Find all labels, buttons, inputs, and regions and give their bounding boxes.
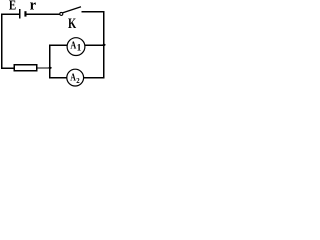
- svg-text:A: A: [70, 40, 76, 52]
- battery E: long plate (positive): [19, 9, 21, 19]
- switch K: blade (open): [63, 7, 81, 13]
- wire: mid vertical (parallel branch left bus): [49, 45, 51, 79]
- wire: A1 branch left lead: [49, 44, 67, 46]
- ammeter A2 circle: [67, 69, 84, 86]
- ammeter A1 circle: [67, 38, 85, 56]
- svg-text:1: 1: [77, 44, 82, 54]
- svg-text:E: E: [9, 0, 16, 13]
- switch K: pivot contact circle: [60, 12, 63, 15]
- wire: bottom-left horizontal to resistor: [1, 67, 14, 69]
- wire: resistor to node A: [37, 67, 51, 69]
- svg-text:2: 2: [76, 76, 80, 85]
- wire: A2 branch right lead: [84, 77, 105, 79]
- wire: battery to switch: [27, 13, 60, 15]
- wire: A2 branch left lead: [49, 77, 67, 79]
- wire: top-left horizontal from corner to battery: [1, 13, 20, 15]
- svg-text:r: r: [30, 0, 37, 14]
- wire: right vertical side: [103, 11, 105, 78]
- resistor R (box): [14, 65, 36, 71]
- node A: junction dot at resistor/branch bus: [48, 66, 52, 69]
- wire: switch to top-right corner: [81, 11, 104, 13]
- wire: left vertical side: [1, 14, 3, 69]
- wire: A1 branch right lead: [85, 44, 104, 46]
- svg-text:K: K: [68, 16, 77, 32]
- node B: junction dot on right vertical at A1 branch: [102, 43, 106, 46]
- battery E: short thick plate (negative): [24, 11, 26, 16]
